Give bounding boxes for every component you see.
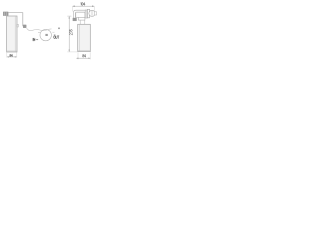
right body bottom cap seam <box>78 50 90 52</box>
hose: wavy pipe run to detail circle <box>27 28 52 31</box>
detail balloon circle <box>40 29 51 40</box>
stub pin right of flange <box>95 12 97 15</box>
vertical dimension line with arrows <box>68 16 70 51</box>
valve block upper step <box>76 12 85 17</box>
bent inlet pipe (right view) outer wall <box>73 10 85 18</box>
mounting bracket on right side of body <box>17 24 19 27</box>
body bottom cap seam <box>7 50 17 52</box>
104 dimension line with arrows <box>72 5 94 7</box>
receiver drier body (right view) <box>78 24 91 51</box>
label IN with arrow <box>33 38 35 41</box>
nut mid line <box>85 10 87 18</box>
value label 104 <box>81 3 86 6</box>
flange plate <box>87 9 89 17</box>
left view: inlet fitting on top of drier <box>3 12 8 16</box>
receiver drier body (left view) <box>7 16 17 52</box>
slots in flange circle <box>90 11 92 16</box>
hex nut before flange <box>85 10 87 18</box>
valve block lower step <box>78 17 85 20</box>
inner sight line of right body <box>79 25 81 52</box>
value label 84 (right view) <box>82 54 85 57</box>
vertical dimension extension ticks <box>67 15 71 17</box>
junction dot on pipe <box>58 27 60 29</box>
flange circle <box>89 10 95 16</box>
right view bottom dimension extension lines <box>77 52 79 59</box>
arrow dash upper-right of circle <box>52 31 54 33</box>
detail glyph inside circle <box>45 34 47 36</box>
inner sight line of body <box>14 16 16 51</box>
wire: outlet pipe running right then down <box>8 13 23 27</box>
right view: 104 dimension extension lines <box>72 7 74 12</box>
value label 84 (left view) <box>10 54 13 57</box>
left view bottom dimension line with arrows <box>7 56 16 58</box>
bent inlet pipe inner wall <box>75 12 85 18</box>
left view bottom dimension extension lines <box>6 53 8 58</box>
label OUT <box>54 36 59 39</box>
OUT arrow <box>54 34 56 36</box>
vertical value label 235 (rotated) <box>69 29 72 35</box>
arrow dash upper-left of circle <box>38 31 40 33</box>
neck between block and body <box>79 20 81 24</box>
IN arrow <box>36 39 38 41</box>
pipe end connector block <box>23 25 26 28</box>
pipe end fitting (right view) <box>73 18 77 21</box>
right view bottom dimension line with arrows <box>76 57 90 59</box>
